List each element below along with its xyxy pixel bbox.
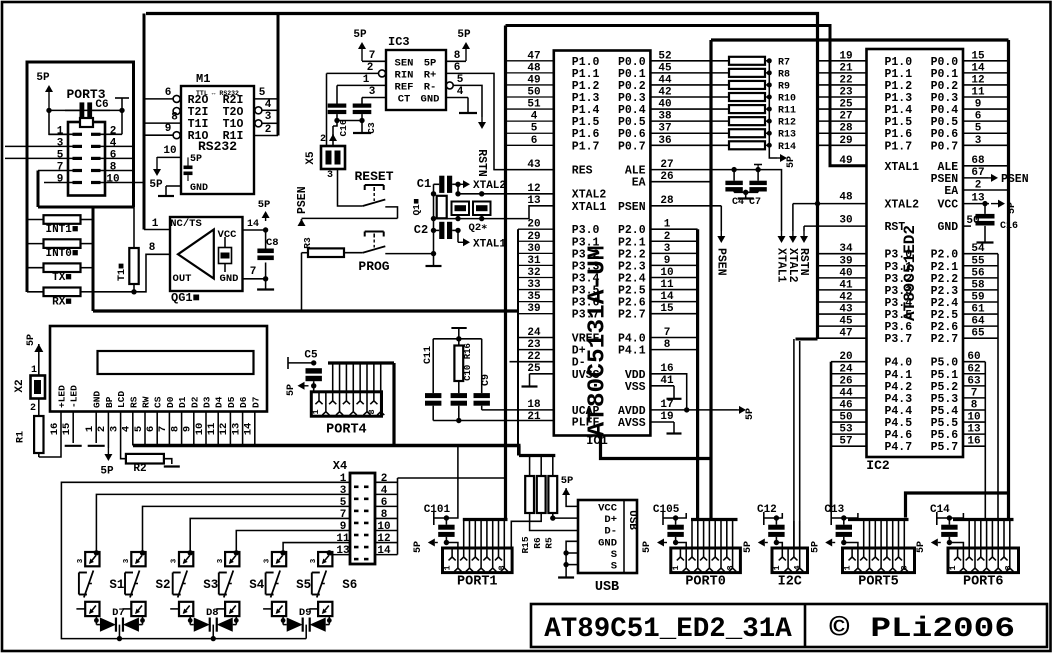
svg-text:P1.1: P1.1 — [572, 68, 600, 81]
ground UVSS — [529, 374, 531, 387]
wire PORT6 pin wire — [974, 521, 976, 548]
QG1 VCC pin 14 — [243, 229, 266, 231]
wire T1 to QG1 pin8 — [134, 254, 170, 291]
svg-text:S: S — [611, 561, 617, 573]
wire XTAL1 jog to IC1 — [505, 206, 554, 219]
svg-text:RS232: RS232 — [198, 139, 237, 154]
svg-text:PSEN: PSEN — [931, 173, 959, 186]
svg-text:29: 29 — [527, 231, 540, 243]
IC2 pin P3.3 (41) — [818, 289, 867, 291]
svg-text:6: 6 — [145, 426, 157, 432]
wire C16-C3 junction — [337, 120, 362, 122]
power 5P arrow VCC IC2 — [991, 203, 998, 205]
wire resistor pack common to 5P — [769, 61, 777, 158]
IC1 pin P2.1 (2) — [650, 240, 697, 242]
svg-text:51: 51 — [527, 99, 541, 111]
net PSEN arrow down — [720, 206, 722, 231]
M1 right pin 3 bubble — [255, 120, 262, 127]
IC1 pin UVSS 25 — [530, 373, 554, 375]
wire PORT3 pin9 — [44, 182, 73, 184]
svg-text:P3.7: P3.7 — [572, 309, 600, 322]
IC2 pin P3.6 (45) — [818, 325, 867, 327]
net XTAL1 flag from ALE — [758, 170, 781, 231]
IC2 pin P4.3 (44) — [831, 397, 867, 399]
svg-text:5P: 5P — [36, 72, 50, 84]
svg-text:1: 1 — [948, 565, 958, 570]
IC2 pin P2.2 (56) — [963, 277, 998, 279]
wire PORT3 pin5 — [5, 157, 73, 159]
svg-text:19: 19 — [660, 411, 673, 423]
svg-text:14: 14 — [247, 219, 259, 230]
IC1 pin P2.5 (11) — [650, 289, 697, 291]
wire P4 bus IC2 — [830, 362, 833, 512]
svg-text:P5.0: P5.0 — [931, 357, 959, 370]
wire junction to X5 arrow — [333, 121, 337, 127]
svg-text:30: 30 — [527, 243, 540, 255]
wire R3 left down — [301, 253, 303, 311]
svg-text:58: 58 — [971, 279, 985, 291]
wire VREF tee top — [451, 327, 466, 329]
diode D9 right — [326, 624, 330, 626]
wire X4 pin5 to S2 — [143, 506, 351, 552]
svg-text:49: 49 — [527, 74, 540, 86]
svg-text:5P: 5P — [1007, 202, 1018, 214]
svg-text:P2.3: P2.3 — [931, 285, 959, 298]
svg-text:R9: R9 — [778, 81, 790, 92]
svg-text:R8: R8 — [778, 69, 790, 80]
svg-text:R14: R14 — [778, 142, 796, 153]
svg-text:49: 49 — [839, 155, 852, 167]
svg-text:3: 3 — [123, 558, 131, 563]
svg-text:P2.7: P2.7 — [618, 309, 646, 322]
capacitor C12 tee — [763, 512, 765, 525]
svg-text:P0.1: P0.1 — [618, 68, 646, 81]
resistor R9 — [729, 81, 765, 89]
svg-text:9: 9 — [165, 123, 172, 135]
svg-text:D6: D6 — [238, 396, 249, 408]
IC2 pin P0.0 (15) — [963, 60, 1009, 62]
IC1 pin P3.0 (20) — [518, 228, 554, 230]
IC1 pin VREF 24 — [518, 337, 554, 339]
svg-text:10: 10 — [660, 267, 673, 279]
IC1 pin D+ 23 — [518, 349, 554, 351]
svg-text:21: 21 — [527, 411, 541, 423]
resistor R13 — [729, 129, 765, 137]
net XTAL2 flag — [793, 203, 867, 205]
IC3 pin 1 — [337, 84, 386, 86]
svg-text:X2: X2 — [14, 379, 26, 392]
wire PORT0 pin wire — [714, 521, 716, 548]
IC2 pin P5.5 (10) — [963, 421, 985, 423]
wire IC1 bottom stub — [601, 436, 712, 459]
svg-text:44: 44 — [839, 387, 853, 399]
svg-text:P5.4: P5.4 — [931, 405, 959, 418]
IC2 pin P5.2 (63) — [963, 385, 985, 387]
svg-text:QG1■: QG1■ — [171, 291, 200, 305]
svg-text:25: 25 — [839, 99, 853, 111]
svg-text:P2.0: P2.0 — [931, 249, 959, 262]
svg-text:16: 16 — [967, 436, 980, 448]
oscillator QG1 body — [170, 217, 243, 291]
wire crystal bottom row — [434, 218, 506, 220]
wire P2 bus of IC1 x697 — [696, 229, 699, 519]
svg-text:C1: C1 — [417, 177, 431, 191]
PORT3 pin pads row 5/6 — [73, 157, 83, 160]
wire X4 pin11 to S5 — [283, 543, 350, 552]
svg-text:SEN: SEN — [395, 57, 414, 69]
svg-text:45: 45 — [839, 316, 853, 328]
svg-text:R2: R2 — [133, 463, 146, 475]
power 5P arrow AVDD — [737, 409, 739, 411]
svg-text:CT: CT — [398, 94, 411, 106]
connector I2C body — [772, 548, 808, 573]
svg-text:T2O: T2O — [223, 106, 244, 119]
IC3 pin 3 — [362, 97, 386, 99]
IC1 pin P2.3 (9) — [650, 264, 697, 266]
svg-text:11: 11 — [206, 423, 218, 436]
diode D8 left — [190, 624, 194, 626]
IC2 pin P4.6 (53) — [831, 433, 867, 435]
connector PORT6 body — [948, 548, 1019, 573]
svg-text:2: 2 — [96, 426, 108, 432]
svg-text:P1.6: P1.6 — [572, 128, 600, 141]
IC1 pin AVDD 17 — [650, 409, 737, 411]
IC2 pin P2.4 (59) — [963, 301, 998, 303]
svg-text:P1.5: P1.5 — [885, 116, 913, 129]
svg-text:GND: GND — [598, 537, 617, 549]
wire C14 to PORT6 pin1 — [949, 543, 963, 549]
svg-text:R+: R+ — [424, 69, 437, 81]
svg-text:1: 1 — [843, 565, 853, 570]
svg-text:P3.5: P3.5 — [572, 285, 600, 298]
wire bus x144 from top — [143, 14, 146, 230]
svg-text:5P: 5P — [457, 29, 471, 41]
IC1 pin P0.0 (52) — [650, 60, 729, 62]
QG1 crystal symbol — [219, 248, 232, 264]
svg-text:9: 9 — [664, 255, 671, 267]
svg-text:LCD: LCD — [116, 391, 127, 408]
IC3 pin 4 GND — [446, 97, 468, 99]
svg-text:27: 27 — [839, 111, 852, 123]
switch S4 — [225, 552, 239, 566]
title block divider — [804, 604, 807, 647]
svg-text:1: 1 — [363, 74, 370, 86]
svg-text:P4.0: P4.0 — [618, 333, 646, 346]
svg-text:D-: D- — [572, 357, 586, 370]
IC1 pin P2.4 (10) — [650, 276, 697, 278]
diode D7 right — [139, 624, 143, 626]
svg-text:37: 37 — [658, 123, 671, 135]
wire PORT0 pin wire — [732, 521, 734, 548]
svg-text:15: 15 — [971, 50, 985, 62]
IC2 pin P5.3 (7) — [963, 397, 985, 399]
svg-text:XTAL2: XTAL2 — [473, 180, 506, 192]
svg-text:RES: RES — [572, 165, 593, 178]
svg-text:1: 1 — [772, 565, 782, 570]
svg-text:P1.5: P1.5 — [572, 116, 600, 129]
svg-text:NC/TS: NC/TS — [170, 218, 202, 230]
wire PORT3 pin2 — [100, 133, 122, 135]
svg-text:ALE: ALE — [937, 161, 958, 174]
QG1 triangle — [178, 230, 214, 279]
wire PORT3 pin6 — [100, 157, 134, 159]
wire PORT4 pin wire 4 — [352, 364, 354, 392]
IC1 pin P1.2 (49) — [506, 84, 554, 86]
svg-text:XTAL2: XTAL2 — [572, 189, 607, 202]
svg-text:C2: C2 — [414, 223, 428, 237]
wire PORT3 pin8 — [100, 170, 134, 172]
svg-text:T1O: T1O — [223, 118, 244, 131]
M1 GND pin — [166, 185, 181, 187]
svg-text:P1.0: P1.0 — [885, 56, 913, 69]
wire LCD pin1 gnd — [95, 412, 97, 444]
svg-text:8: 8 — [149, 242, 156, 254]
svg-text:C13: C13 — [824, 504, 844, 516]
svg-text:RW: RW — [141, 396, 152, 408]
svg-text:3: 3 — [217, 558, 225, 563]
IC2 pin P0.2 (12) — [963, 84, 1009, 86]
IC2 pin P5.4 (8) — [963, 409, 985, 411]
svg-text:PORT1: PORT1 — [457, 575, 498, 590]
svg-text:P2.2: P2.2 — [618, 248, 646, 261]
switch S5 — [272, 552, 286, 566]
wire LCD pin15 gnd — [72, 412, 74, 444]
resistor R8 — [729, 69, 765, 77]
svg-text:50: 50 — [966, 215, 979, 227]
svg-text:P3.5: P3.5 — [885, 309, 913, 322]
wire PORT6 pin wire — [991, 521, 993, 548]
svg-text:C12: C12 — [757, 504, 777, 516]
svg-text:35: 35 — [527, 291, 541, 303]
wire C105 to PORT0 pin1 — [676, 543, 687, 549]
wire branch to PORT5 — [906, 493, 1009, 518]
svg-text:P0.4: P0.4 — [931, 104, 959, 117]
IC2 pin P5.0 (60) — [963, 361, 985, 363]
IC1 pin P2.7 (15) — [650, 313, 697, 315]
svg-text:RESET: RESET — [354, 169, 393, 184]
IC2 pin P4.1 (24) — [831, 373, 867, 375]
ground USB — [565, 565, 567, 578]
wire pin5 to RSTN arrow — [453, 85, 482, 117]
connector PORT3 header — [68, 122, 105, 196]
wire PORT1 pin wire — [474, 521, 476, 548]
svg-text:26: 26 — [839, 375, 852, 387]
svg-text:D9: D9 — [299, 607, 312, 619]
IC1 pin P1.7 (6) — [506, 144, 554, 146]
M1 left pin 7 bubble — [173, 108, 180, 115]
svg-text:25: 25 — [527, 363, 541, 375]
IC2 pin P1.2 (22) — [818, 84, 867, 86]
wire PORT3 pin3 — [5, 145, 73, 147]
svg-text:P4.4: P4.4 — [885, 405, 913, 418]
svg-text:7: 7 — [250, 266, 257, 278]
svg-text:3: 3 — [975, 135, 982, 147]
capacitor C3 — [353, 104, 372, 108]
wire C5 to PORT4 pin1 — [313, 386, 315, 392]
IC2 pin VCC 13 — [963, 203, 989, 205]
svg-text:3: 3 — [664, 243, 671, 255]
wire PORT4 feed vertical — [392, 363, 395, 446]
svg-text:S5: S5 — [296, 578, 311, 592]
svg-text:C101: C101 — [424, 504, 451, 516]
IC1 pin P0.2 (44) — [650, 84, 729, 86]
wire XTAL2 row — [458, 193, 554, 195]
svg-text:P0.3: P0.3 — [931, 92, 959, 105]
svg-text:3: 3 — [57, 137, 64, 149]
svg-text:14: 14 — [243, 423, 255, 436]
svg-text:P4.2: P4.2 — [885, 381, 913, 394]
wire bus A-B link — [517, 446, 520, 456]
svg-text:T1I: T1I — [188, 118, 209, 131]
svg-text:PSEN: PSEN — [1001, 173, 1029, 186]
svg-text:D2: D2 — [189, 396, 200, 408]
wire PORT5 pin wire — [892, 521, 894, 548]
svg-text:D+: D+ — [604, 514, 617, 526]
svg-text:7: 7 — [57, 162, 64, 174]
net XTAL1 arrow — [457, 230, 459, 242]
svg-text:P5.6: P5.6 — [931, 429, 959, 442]
svg-text:5: 5 — [531, 123, 538, 135]
IC1 pin P2.6 (14) — [650, 301, 697, 303]
svg-text:P5.5: P5.5 — [931, 417, 959, 430]
svg-text:P3.6: P3.6 — [572, 297, 600, 310]
wire PORT1 pin wire — [463, 521, 465, 548]
IC1 pin P0.7 (36) — [650, 144, 729, 146]
LCD pin BP 5P arrow — [107, 412, 109, 449]
svg-text:18: 18 — [527, 399, 541, 411]
svg-text:VCC: VCC — [598, 502, 618, 514]
svg-text:2: 2 — [110, 125, 117, 137]
svg-text:1: 1 — [31, 365, 37, 376]
wire X4 pin13 to S6 — [329, 552, 350, 555]
wire LCD pin CS to bus — [156, 412, 158, 446]
svg-text:10: 10 — [194, 423, 206, 436]
PORT5 pin tabs — [851, 548, 853, 557]
svg-text:3: 3 — [265, 111, 272, 123]
svg-text:OUT: OUT — [173, 273, 192, 285]
svg-text:P0.6: P0.6 — [618, 128, 646, 141]
svg-text:R3: R3 — [302, 237, 313, 249]
IC2 pin P4.2 (26) — [831, 385, 867, 387]
wire PORT0 pin wire — [726, 521, 728, 548]
M1 left pin 8 — [144, 122, 181, 124]
wire LCD pin D4 to bus — [217, 412, 219, 446]
wire S6 bottom — [328, 616, 330, 625]
wire PORT1 feed bar — [463, 518, 508, 521]
svg-text:64: 64 — [971, 316, 985, 328]
svg-text:PORT6: PORT6 — [963, 575, 1004, 590]
svg-text:46: 46 — [839, 399, 852, 411]
svg-text:C9: C9 — [481, 374, 492, 386]
IC1 pin D- 22 — [510, 361, 554, 363]
resonator Q2 left — [452, 202, 470, 216]
svg-text:55: 55 — [971, 255, 985, 267]
svg-text:21: 21 — [839, 62, 853, 74]
svg-text:8: 8 — [367, 409, 377, 414]
svg-text:P2.6: P2.6 — [931, 321, 959, 334]
svg-text:R13: R13 — [778, 130, 796, 141]
svg-text:8: 8 — [900, 565, 910, 570]
svg-text:P0.0: P0.0 — [931, 56, 959, 69]
PORT3 enclosure box — [27, 62, 134, 292]
ground crystal — [433, 254, 435, 266]
wire LCD pin3 to R2 — [121, 412, 126, 459]
IC M1 RS232 body — [181, 86, 254, 194]
svg-text:3: 3 — [327, 170, 333, 181]
svg-text:INT0■: INT0■ — [45, 248, 78, 260]
net RSTN flag — [804, 225, 867, 227]
svg-text:8: 8 — [497, 565, 507, 570]
svg-text:13: 13 — [967, 424, 981, 436]
svg-text:XTAL1: XTAL1 — [775, 248, 788, 283]
IC1 pin ALE 27 — [650, 169, 758, 171]
svg-text:D7: D7 — [112, 607, 125, 619]
wire IC3 pin2 to X5 — [326, 73, 328, 146]
svg-text:15: 15 — [61, 423, 73, 436]
svg-text:17: 17 — [660, 399, 673, 411]
svg-text:R7: R7 — [778, 57, 790, 68]
svg-text:P1.2: P1.2 — [572, 80, 600, 93]
svg-text:7: 7 — [664, 327, 671, 339]
wire PLFF row — [433, 420, 554, 422]
wire M1 right bus to top — [277, 14, 280, 136]
svg-text:20: 20 — [839, 351, 852, 363]
svg-text:TX■: TX■ — [52, 272, 72, 284]
IC1 pin P0.1 (45) — [650, 72, 729, 74]
wire S1 bottom — [95, 616, 97, 625]
IC1 pin P1.3 (50) — [506, 96, 554, 98]
svg-text:5: 5 — [457, 74, 464, 86]
IC1 pin P3.7 (39) — [518, 313, 554, 315]
svg-text:EA: EA — [944, 185, 958, 198]
wire PORT1 pin wire — [486, 521, 488, 548]
wire PORT0 pin wire — [697, 521, 699, 548]
IC2 pin P1.4 (25) — [818, 108, 867, 110]
IC3 pin 8 5P — [446, 60, 466, 62]
svg-text:C16: C16 — [338, 119, 349, 136]
svg-text:40: 40 — [658, 99, 671, 111]
wire 5P to C6 — [49, 109, 122, 111]
IC2 pin P1.0 (19) — [818, 60, 867, 62]
svg-text:3: 3 — [369, 86, 376, 98]
switch S3 — [179, 552, 193, 566]
resistor RX — [27, 291, 44, 293]
svg-text:5: 5 — [975, 123, 982, 135]
svg-text:R2I: R2I — [223, 94, 244, 107]
wire bus vertical x1008 right — [1007, 40, 1010, 520]
wire PORT3 pin7 — [38, 170, 73, 172]
wire LCD pin D1 to bus — [181, 412, 183, 446]
IC1 pin P3.1 (29) — [518, 240, 554, 242]
wire C101 riser — [457, 446, 459, 514]
wire LCD pin D3 to bus — [205, 412, 207, 446]
IC1 pin P3.3 (31) — [518, 264, 554, 266]
svg-text:39: 39 — [839, 255, 852, 267]
PORT1 pin tabs — [451, 548, 453, 557]
wire PORT3 pin4 — [100, 145, 134, 147]
svg-text:P4.1: P4.1 — [885, 369, 913, 382]
svg-text:Q2∗: Q2∗ — [469, 222, 488, 234]
svg-text:4: 4 — [531, 111, 538, 123]
resistor R15 — [529, 456, 531, 477]
wire PROG to crystal gnd — [385, 253, 433, 255]
svg-text:P2.4: P2.4 — [931, 297, 959, 310]
wire S3 bottom — [189, 616, 191, 625]
svg-text:8: 8 — [171, 112, 178, 124]
wire PORT5 pin wire — [880, 521, 882, 548]
svg-text:13: 13 — [230, 423, 242, 436]
svg-text:50: 50 — [839, 412, 852, 424]
